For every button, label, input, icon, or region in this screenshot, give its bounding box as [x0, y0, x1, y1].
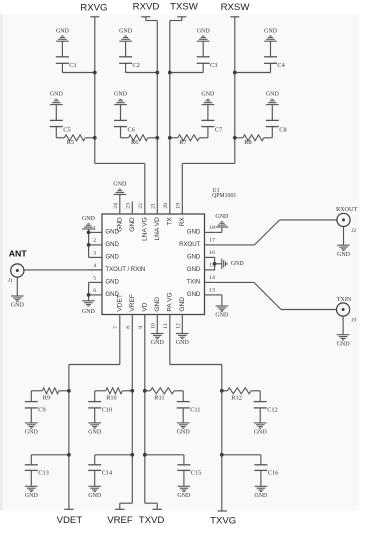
svg-text:RXSW: RXSW: [221, 2, 251, 13]
svg-text:C4: C4: [277, 62, 285, 69]
svg-text:GND: GND: [254, 430, 268, 436]
svg-text:GND: GND: [337, 252, 351, 258]
svg-text:2: 2: [93, 238, 96, 244]
svg-text:C6: C6: [128, 126, 135, 133]
svg-text:GND: GND: [177, 493, 191, 499]
svg-text:GND: GND: [266, 92, 280, 98]
svg-text:GND: GND: [82, 216, 96, 222]
svg-text:TXSW: TXSW: [170, 2, 199, 13]
svg-text:GND: GND: [114, 92, 128, 98]
svg-text:R7: R7: [179, 139, 186, 146]
svg-text:C5: C5: [63, 126, 70, 133]
svg-text:9: 9: [138, 326, 144, 329]
svg-text:TXVG: TXVG: [210, 516, 236, 527]
svg-text:GND: GND: [197, 28, 211, 34]
svg-text:RXVG: RXVG: [80, 3, 107, 14]
svg-text:J1: J1: [8, 278, 13, 284]
svg-text:22: 22: [138, 203, 144, 209]
svg-text:TXOUT / RXIN: TXOUT / RXIN: [105, 267, 145, 273]
svg-text:C9: C9: [38, 407, 45, 414]
svg-text:R6: R6: [131, 139, 138, 146]
svg-text:5: 5: [93, 275, 96, 281]
svg-text:11: 11: [163, 323, 169, 329]
svg-text:R10: R10: [106, 395, 117, 402]
svg-text:GND: GND: [25, 493, 39, 499]
svg-text:GND: GND: [231, 261, 245, 267]
svg-text:C2: C2: [133, 62, 140, 69]
svg-text:18: 18: [209, 225, 215, 231]
svg-text:10: 10: [151, 323, 157, 329]
svg-text:C12: C12: [267, 407, 278, 414]
svg-text:R11: R11: [154, 395, 164, 402]
svg-text:23: 23: [126, 203, 132, 209]
svg-text:GND: GND: [82, 309, 96, 315]
svg-text:C10: C10: [102, 407, 113, 414]
svg-text:J3: J3: [351, 318, 356, 324]
svg-text:J2: J2: [351, 228, 356, 234]
svg-text:GND: GND: [88, 430, 102, 436]
svg-text:GND: GND: [176, 340, 190, 346]
svg-text:RXOUT: RXOUT: [336, 206, 358, 213]
svg-text:C7: C7: [215, 126, 222, 133]
svg-text:C8: C8: [279, 126, 286, 133]
svg-text:17: 17: [209, 238, 215, 244]
svg-text:GND: GND: [151, 340, 165, 346]
svg-text:GND: GND: [187, 292, 201, 298]
svg-text:GND: GND: [179, 297, 186, 312]
svg-text:21: 21: [151, 203, 157, 209]
svg-text:GND: GND: [105, 230, 119, 236]
svg-text:GND: GND: [105, 280, 119, 286]
svg-text:GND: GND: [129, 217, 136, 232]
svg-text:GND: GND: [187, 255, 201, 261]
svg-text:GND: GND: [50, 92, 64, 98]
svg-text:GND: GND: [254, 493, 268, 499]
svg-text:RX: RX: [179, 217, 186, 227]
svg-text:4: 4: [93, 263, 96, 269]
svg-text:TXIN: TXIN: [187, 280, 201, 286]
svg-text:24: 24: [113, 203, 119, 209]
svg-text:GND: GND: [11, 303, 25, 309]
svg-text:RXVD: RXVD: [133, 2, 160, 13]
svg-text:8: 8: [126, 326, 132, 329]
svg-text:GND: GND: [113, 182, 127, 188]
svg-text:19: 19: [176, 203, 182, 209]
svg-text:GND: GND: [177, 430, 191, 436]
svg-text:R12: R12: [231, 395, 242, 402]
svg-text:1: 1: [93, 225, 96, 231]
svg-text:VDET: VDET: [117, 294, 124, 311]
svg-text:R5: R5: [67, 139, 74, 146]
svg-text:VDET: VDET: [57, 515, 83, 526]
svg-text:12: 12: [176, 323, 182, 329]
svg-text:GND: GND: [337, 341, 351, 347]
svg-text:QPM1001: QPM1001: [212, 193, 236, 199]
svg-text:VREF: VREF: [107, 515, 133, 526]
svg-text:16: 16: [209, 250, 215, 256]
svg-text:GND: GND: [25, 430, 39, 436]
svg-text:RXOUT: RXOUT: [179, 242, 200, 248]
svg-text:GND: GND: [215, 214, 229, 220]
svg-text:GND: GND: [215, 313, 229, 319]
svg-text:6: 6: [93, 288, 96, 294]
svg-text:GND: GND: [154, 297, 161, 312]
svg-text:R9: R9: [43, 395, 50, 402]
svg-text:GND: GND: [119, 28, 133, 34]
svg-text:PA VG: PA VG: [167, 292, 174, 311]
svg-text:TX: TX: [167, 217, 174, 226]
svg-text:GND: GND: [264, 28, 278, 34]
svg-text:TXVD: TXVD: [139, 515, 165, 526]
svg-text:20: 20: [163, 203, 169, 209]
svg-text:GND: GND: [88, 493, 102, 499]
svg-text:ANT: ANT: [9, 249, 28, 259]
svg-text:GND: GND: [105, 255, 119, 261]
svg-text:13: 13: [209, 288, 215, 294]
svg-text:GND: GND: [201, 92, 215, 98]
svg-text:C16: C16: [268, 469, 279, 476]
svg-text:C11: C11: [190, 407, 200, 414]
svg-text:7: 7: [113, 326, 119, 329]
svg-text:VD: VD: [142, 302, 149, 311]
svg-text:LNA VD: LNA VD: [154, 217, 161, 241]
svg-text:C14: C14: [102, 469, 113, 476]
svg-text:R8: R8: [244, 139, 251, 146]
svg-text:VREF: VREF: [129, 294, 136, 311]
svg-text:14: 14: [209, 275, 215, 281]
svg-text:GND: GND: [56, 28, 70, 34]
svg-text:TXIN: TXIN: [337, 296, 352, 303]
svg-text:GND: GND: [105, 242, 119, 248]
svg-text:GND: GND: [187, 267, 201, 273]
svg-text:C1: C1: [69, 62, 76, 69]
svg-text:GND: GND: [187, 230, 201, 236]
svg-text:C13: C13: [38, 469, 49, 476]
svg-text:3: 3: [93, 250, 96, 256]
svg-text:C15: C15: [191, 469, 202, 476]
svg-text:C3: C3: [210, 62, 217, 69]
svg-text:LNA VG: LNA VG: [142, 217, 149, 241]
